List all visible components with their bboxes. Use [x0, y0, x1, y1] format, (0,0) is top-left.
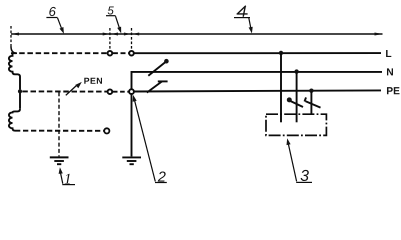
ground 2 stem: [131, 94, 133, 156]
text: callout number 1: [65, 174, 70, 184]
text: dimension number 5: [108, 6, 114, 14]
wire between windings: [19, 89, 21, 109]
extension line x=11 (dashed): [10, 26, 12, 47]
dimension line (top, y=34): [11, 33, 383, 35]
equipment box (chain outline): [266, 114, 326, 135]
text: dimension number 6: [49, 7, 56, 16]
PEN dashed between circles: [113, 91, 129, 93]
N conductor (up from node, then right): [132, 72, 383, 89]
terminal circle on PEN x=110: [108, 89, 113, 94]
dimension arrow right end: [375, 33, 383, 36]
ground 2 symbol: [122, 156, 141, 158]
junction dot PEN tap: [18, 89, 22, 93]
terminal circle bottom left: [104, 128, 109, 133]
fault symbol at equipment PE (tick + slash): [305, 97, 307, 101]
text: L conductor label: [386, 50, 391, 57]
fault symbol on N (slash with dot): [148, 62, 165, 76]
label 4 underline: [234, 17, 250, 19]
label 2 underline: [155, 182, 167, 184]
text: dimension number 4: [237, 6, 248, 17]
label 3 underline: [296, 181, 312, 183]
source earth line (dashed, bottom left): [15, 130, 103, 132]
dimension arrow left end: [11, 33, 19, 36]
label 5 leader: [116, 16, 120, 29]
text: callout number 3: [301, 170, 309, 181]
label 4 leader: [249, 18, 251, 30]
label 1 leader: [60, 172, 62, 183]
dimension arrow pair at x=110: [103, 33, 110, 36]
text: PE conductor label: [387, 87, 400, 94]
text: N conductor label: [387, 68, 393, 75]
node: main earthing terminal circle: [129, 89, 134, 94]
fault symbol on PE (slash with tick): [147, 81, 162, 92]
L line solid section: [134, 52, 381, 54]
transformer winding lower: [9, 109, 20, 131]
branch from PE to equipment: [309, 89, 313, 93]
PE conductor (right from node): [134, 90, 381, 91]
text: callout number 2: [158, 171, 166, 181]
label 1 underline: [62, 184, 75, 186]
terminal circle on L x=110: [108, 51, 113, 56]
branch from L to equipment: [279, 51, 283, 55]
label 5 underline: [106, 15, 116, 17]
ground 1 branch (dashed vertical at x=59): [58, 92, 60, 156]
L line dashed between circles: [113, 52, 129, 54]
text: PEN conductor label: [84, 78, 102, 84]
PEN label leader: [66, 86, 77, 96]
dimension arrow pair at x=131.5: [124, 33, 131, 36]
label 3 leader: [288, 144, 296, 182]
L line dashed left section: [11, 52, 107, 54]
fault symbol at equipment N (dot + slash): [287, 97, 292, 102]
terminal circle on L x=131.5: [129, 51, 134, 56]
ground 1 symbol: [50, 156, 69, 158]
branch from N to equipment: [294, 69, 298, 73]
label 6 leader: [58, 18, 63, 31]
transformer winding upper (source): [9, 53, 20, 89]
extension line x=109.9 (dashed): [109, 28, 111, 50]
label 6 underline: [46, 17, 57, 19]
extension line x=131.5 (dashed): [131, 28, 133, 50]
PEN line dashed: [22, 90, 107, 92]
label 2 leader: [134, 100, 155, 182]
